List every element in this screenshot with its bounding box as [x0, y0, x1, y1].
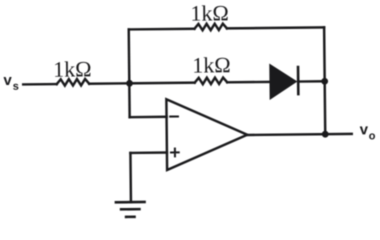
svg-text:s: s — [13, 81, 19, 93]
svg-text:v: v — [3, 72, 12, 89]
svg-text:1kΩ: 1kΩ — [53, 56, 92, 81]
svg-text:1kΩ: 1kΩ — [192, 52, 231, 77]
svg-text:o: o — [369, 130, 376, 142]
svg-text:1kΩ: 1kΩ — [190, 0, 229, 25]
svg-text:v: v — [360, 121, 369, 138]
